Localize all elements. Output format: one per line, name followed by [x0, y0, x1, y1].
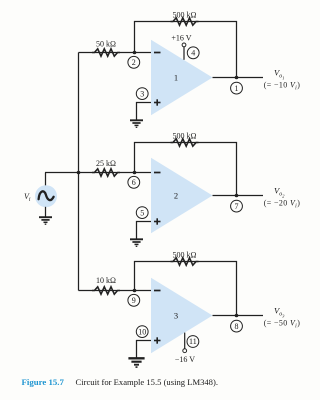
node: inverting input junction pin 6 — [133, 171, 137, 175]
svg-text:2: 2 — [132, 58, 136, 67]
node: output junction pin 7 — [235, 194, 239, 198]
wire: input branch 3 — [79, 290, 152, 292]
node: source tap junction — [77, 171, 81, 175]
op-amp 3 (LM348 section) — [151, 278, 213, 354]
node: output junction pin 1 — [235, 76, 239, 80]
pin 3 (op-amp 1 non-inverting input) — [136, 88, 148, 100]
terminal: +16 V supply circle (pin 4) — [182, 43, 186, 47]
pin 2 (op-amp 1 inverting input) — [128, 56, 140, 68]
svg-text:10 kΩ: 10 kΩ — [96, 276, 116, 285]
wire: non-inverting input 2 to ground — [137, 222, 152, 240]
resistor RF1 500 kohm feedback — [171, 18, 199, 25]
wire: non-inverting input 3 to ground — [137, 341, 152, 359]
svg-text:Figure 15.7: Figure 15.7 — [22, 377, 65, 387]
svg-text:7: 7 — [235, 202, 239, 211]
wire: non-inverting input 1 to ground — [137, 103, 152, 121]
pin 6 (op-amp 2 inverting input) — [128, 176, 140, 188]
op-amp 2 inverting input mark — [154, 172, 161, 174]
svg-text:9: 9 — [132, 296, 136, 305]
op-amp 3 inverting input mark — [154, 290, 161, 292]
svg-text:4: 4 — [191, 49, 195, 58]
svg-text:500 kΩ: 500 kΩ — [173, 10, 197, 19]
svg-text:10: 10 — [138, 327, 146, 336]
wire: +16 V supply to op-amp 1 top — [183, 47, 185, 60]
node: inverting input junction pin 9 — [133, 289, 137, 293]
svg-text:50 kΩ: 50 kΩ — [96, 39, 116, 48]
ground (source) — [39, 217, 52, 224]
pin 7 (op-amp 2 output) — [231, 200, 243, 212]
wire: output 3 — [213, 315, 264, 317]
svg-text:+16 V: +16 V — [171, 33, 191, 42]
svg-text:Circuit for Example 15.5 (usin: Circuit for Example 15.5 (using LM348). — [76, 377, 219, 387]
pin 8 (op-amp 3 output) — [231, 320, 243, 332]
svg-text:8: 8 — [235, 322, 239, 331]
ground (op-amp 1 + input) — [130, 120, 143, 127]
svg-text:11: 11 — [189, 337, 197, 346]
svg-text:3: 3 — [174, 311, 178, 321]
resistor RF3 500 kohm feedback — [171, 258, 199, 265]
wire: output 1 — [213, 77, 264, 79]
wire: source top lead — [45, 173, 47, 186]
svg-text:5: 5 — [140, 208, 144, 217]
wire: feedback loop 1 — [135, 22, 237, 78]
op-amp 2 (LM348 section) — [151, 158, 213, 234]
svg-text:−16 V: −16 V — [175, 355, 195, 364]
svg-text:2: 2 — [174, 191, 178, 201]
wire: input bus vertical — [78, 53, 80, 291]
node: inverting input junction pin 2 — [133, 51, 137, 55]
ground (op-amp 3 + input) — [128, 358, 144, 367]
terminal: -16 V supply circle (pin 11) — [183, 349, 187, 353]
svg-text:1: 1 — [174, 73, 178, 83]
pin 9 (op-amp 3 inverting input) — [128, 294, 140, 306]
svg-text:25 kΩ: 25 kΩ — [96, 159, 116, 168]
pin 4 (V+ supply) — [187, 47, 199, 59]
pin 11 (V- supply) — [187, 336, 199, 348]
wire: feedback loop 2 — [135, 143, 237, 196]
wire: input branch 2 — [45, 172, 151, 174]
ground (op-amp 2 + input) — [130, 239, 143, 246]
pin 1 (op-amp 1 output) — [231, 82, 243, 94]
op-amp 1 (LM348 section) — [151, 40, 213, 116]
op-amp 1 non-inverting input mark — [154, 99, 161, 105]
wire: op-amp 3 bottom to -16 V supply — [184, 333, 186, 349]
svg-text:1: 1 — [235, 84, 239, 93]
svg-text:500 kΩ: 500 kΩ — [173, 131, 197, 140]
op-amp 3 non-inverting input mark — [154, 337, 161, 343]
resistor R3 10 kohm input — [92, 287, 120, 294]
pin 5 (op-amp 2 non-inverting input) — [136, 207, 148, 219]
pin 10 (op-amp 3 non-inverting input) — [136, 326, 148, 338]
wire: feedback loop 3 — [135, 262, 237, 316]
wire: source bottom lead — [45, 207, 47, 217]
op-amp 2 non-inverting input mark — [154, 218, 161, 224]
svg-text:6: 6 — [132, 178, 136, 187]
AC source Vi — [35, 185, 57, 207]
wire: input branch 1 — [79, 52, 152, 54]
wire: output 2 — [213, 195, 264, 197]
op-amp 1 inverting input mark — [154, 52, 161, 54]
svg-text:3: 3 — [140, 89, 144, 98]
node: output junction pin 8 — [235, 314, 239, 318]
svg-text:500 kΩ: 500 kΩ — [173, 250, 197, 259]
resistor R1 50 kohm input — [92, 49, 120, 56]
resistor RF2 500 kohm feedback — [171, 139, 199, 146]
resistor R2 25 kohm input — [92, 169, 120, 176]
